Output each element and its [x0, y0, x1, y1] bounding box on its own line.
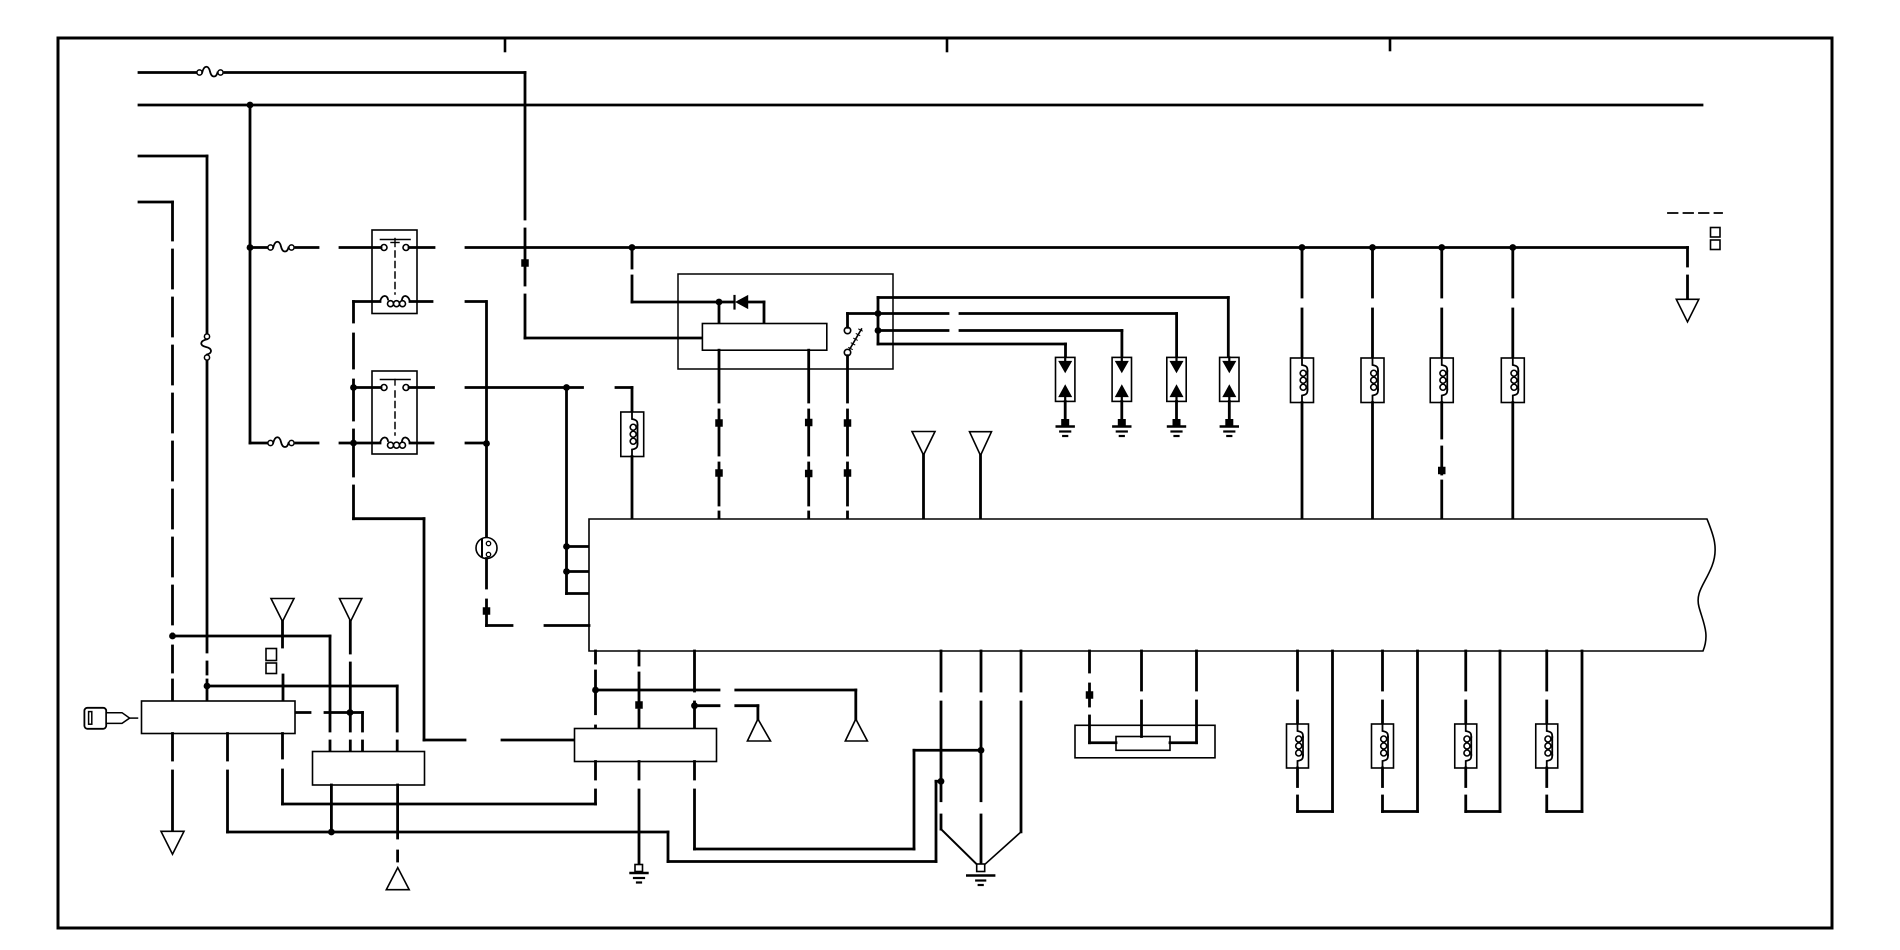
relay R2 contact tick	[394, 380, 396, 386]
wire tick top border 1	[504, 38, 507, 51]
wire x330 down	[329, 636, 332, 731]
wire fuse F3 row	[250, 442, 268, 445]
junction x486 coil R2 return	[483, 440, 490, 447]
wire coil M1 return to ECU	[1331, 651, 1334, 812]
coil M3	[1466, 724, 1472, 737]
arrow terminal T6 up	[386, 868, 409, 890]
arrow terminal T5	[161, 831, 184, 854]
wire ECU pin 1089	[1088, 651, 1091, 672]
junction relay R2 contact left	[350, 384, 357, 391]
solenoid L1 box	[621, 412, 644, 457]
wire diagonal pin1021 to ground point	[983, 832, 1021, 866]
wire H5 to arrow T3	[695, 704, 720, 707]
wire battery feed with fuse F1	[139, 71, 197, 74]
wire feed D	[139, 201, 173, 204]
coil M4 box	[1536, 724, 1558, 768]
ground G1	[1057, 425, 1074, 427]
wire relay R2 contact right	[409, 386, 434, 389]
wire box3 pin 639 to ground	[638, 762, 641, 780]
wire arrow B to ECU	[979, 456, 982, 520]
wire vertical x632 from hot bus	[631, 248, 634, 269]
wire h3 stub from meter	[295, 711, 310, 714]
indicator bulb	[476, 538, 497, 559]
wire ECU pin 1196	[1195, 651, 1198, 690]
wire tick top border 3	[1389, 38, 1392, 50]
wire ECU pin to coil M1	[1296, 651, 1299, 690]
junction hot bus x632	[629, 244, 636, 251]
junction rail x1372	[1369, 244, 1376, 251]
fusible link on x207	[204, 334, 209, 339]
diode pair Z4 box	[1220, 357, 1239, 401]
coil M1 box	[1287, 724, 1309, 768]
coil M3 box	[1455, 724, 1477, 768]
connector pair square 2	[266, 663, 277, 674]
resistor R	[1116, 737, 1170, 751]
injector L5 box	[1501, 358, 1524, 403]
diode pair Z4 bottom diode	[1223, 386, 1235, 397]
coil M1	[1298, 724, 1304, 737]
main relay coil block box	[702, 324, 826, 351]
arrow terminal A above ECU	[912, 432, 935, 456]
wire T1 stem lower	[282, 675, 285, 701]
wire output line 3	[878, 329, 948, 332]
wire switch to bus	[846, 314, 849, 328]
connector on switch pin 1	[844, 419, 852, 427]
wire meter pin 172 down	[171, 734, 174, 761]
main relay switch terminal bottom	[844, 349, 850, 355]
junction lineB x331	[328, 829, 335, 836]
wire relay R1 contact left	[340, 246, 381, 249]
junction pin694 h5	[691, 702, 698, 709]
junction rail x1512	[1509, 244, 1516, 251]
arrow terminal T3	[747, 719, 770, 741]
wire diagonal pin941 to ground point	[941, 829, 979, 866]
wire coil M3 down	[1464, 768, 1467, 787]
connector ground Z2	[1118, 419, 1126, 427]
diode pair Z2 top diode	[1121, 357, 1123, 361]
diode pair Z1 box	[1056, 357, 1075, 401]
wire diode Z4 to ground	[1228, 401, 1231, 420]
wire coil M3 return to ECU	[1499, 651, 1502, 812]
wire relay R1 coil left	[354, 300, 381, 303]
wire ECU pin 1141	[1140, 651, 1143, 690]
ground G5	[631, 872, 648, 874]
wire box2 pin 397 down	[396, 785, 399, 838]
junction rail x1441	[1438, 244, 1445, 251]
diode pair Z3 box	[1167, 357, 1186, 401]
coil M2 box	[1372, 724, 1394, 768]
wire drop to diode box 4	[1227, 298, 1230, 358]
junction ECU feed branch	[563, 384, 570, 391]
ECU main box	[589, 519, 1715, 651]
wire pin694 run right	[695, 848, 915, 851]
wire coil M3 loop bottom	[1466, 810, 1500, 813]
wire diode to corner	[748, 301, 765, 304]
wire x397 down	[396, 686, 399, 731]
wire down to relay coil block 2	[718, 302, 721, 324]
wire line B down	[667, 832, 670, 862]
wire switch pin to ECU	[846, 356, 849, 402]
wire rail end drop	[1686, 248, 1689, 267]
diode D1	[737, 296, 748, 308]
diode pair Z4 top diode	[1228, 357, 1230, 361]
combination meter box	[142, 701, 296, 734]
wire solenoid L1 to ECU	[631, 457, 634, 520]
main relay unit box	[678, 274, 893, 369]
junction fuse F2 branch	[247, 244, 254, 251]
wire coil M1 loop bottom	[1298, 810, 1333, 813]
wire vertical x250	[249, 105, 252, 443]
wire ECU pin from coil block B	[807, 350, 810, 402]
wire coil M4 return to ECU	[1581, 651, 1584, 812]
ignition key	[84, 708, 106, 729]
wire main hot rail	[466, 246, 1688, 249]
wire vertical x486 bulb feed	[485, 302, 488, 538]
injector L3 box	[1361, 358, 1384, 403]
connector ground Z1	[1061, 419, 1069, 427]
wire arrow A to ECU	[922, 455, 925, 519]
injector L3 coil	[1373, 358, 1379, 371]
wire injector 4 feed	[1511, 248, 1514, 298]
wire drop to diode box 1	[1064, 344, 1067, 357]
wire diode row	[632, 301, 733, 304]
wire x424 to ign box	[424, 739, 465, 742]
wire ECU pin from coil block A	[718, 350, 721, 402]
wire coil M4 loop bottom	[1547, 810, 1582, 813]
connector ground Z4	[1225, 419, 1233, 427]
injector L4 box	[1430, 358, 1453, 403]
wire h1	[173, 635, 331, 638]
wire vertical x632 to solenoid	[631, 388, 634, 413]
relay R2 contact terminal left	[381, 385, 387, 391]
connector square bottom	[1711, 240, 1721, 250]
wire coil M2 return to ECU	[1416, 651, 1419, 812]
wire line B lower run	[668, 860, 936, 863]
injector L5 coil	[1513, 358, 1519, 371]
wire ECU stub 3	[567, 592, 590, 595]
relay R2 contact bar	[381, 379, 411, 381]
wire ECU pin 1021	[1020, 651, 1023, 691]
ground G6 main	[967, 874, 994, 876]
main relay switch blade	[850, 329, 862, 350]
wire ECU pin to coil M2	[1381, 651, 1384, 690]
junction ECU stub 1	[563, 543, 570, 550]
relay R1 contact terminal left	[381, 245, 387, 251]
wire fuse F2 row	[250, 246, 268, 249]
coil M2	[1383, 724, 1389, 737]
wire vertical x566 to ECU	[565, 388, 568, 594]
arrow terminal T1	[271, 599, 294, 622]
junction x172 h1	[169, 633, 176, 640]
wire up x914	[913, 750, 916, 849]
wire diode Z2 to ground	[1120, 401, 1123, 420]
connector on pin B1	[805, 419, 813, 427]
diode pair Z1 bottom diode	[1059, 386, 1071, 397]
connector square top	[1711, 228, 1721, 238]
dashed separator	[1668, 212, 1722, 214]
connector on pin A2	[715, 469, 723, 477]
wire meter pin 282 down	[281, 734, 284, 759]
bus vertical x878	[877, 298, 880, 345]
ground G3	[1168, 425, 1185, 427]
connector ground Z3	[1173, 419, 1181, 427]
wire ECU pin 694	[693, 651, 696, 691]
wire relay R2 coil left	[340, 442, 380, 445]
wire ECU pin 639	[638, 651, 641, 665]
wire vertical x353 dashed to relay R2	[352, 302, 355, 323]
connector on pin B2	[805, 470, 813, 478]
wire resistor left lead	[1090, 741, 1117, 744]
wire coil M2 loop bottom	[1383, 810, 1418, 813]
wire vertical x207 with fusible link	[206, 156, 209, 334]
wire output line 1	[878, 296, 1228, 299]
wire x207 lower dashes	[206, 662, 209, 674]
wire injector 3 to ECU dashed	[1440, 403, 1443, 439]
solenoid L1 coil	[632, 412, 638, 425]
wire ECU stub 2	[567, 570, 590, 573]
junction diode row	[716, 299, 723, 306]
junction relay R2 coil left	[350, 440, 357, 447]
wire diode Z1 to ground	[1064, 401, 1067, 420]
wire x362 down	[361, 713, 364, 732]
ignition unit box	[575, 729, 717, 762]
relay R1 contact bar	[381, 239, 411, 241]
diode D1 cathode bar	[733, 296, 735, 309]
connector on wire x525	[521, 259, 529, 267]
junction pin981	[978, 747, 985, 754]
wire ECU pin to coil M3	[1464, 651, 1467, 690]
wire box3 pin 595 down	[594, 762, 597, 780]
coil M4	[1547, 724, 1553, 737]
connector on switch pin 2	[844, 469, 852, 477]
wire T1 stem	[281, 622, 284, 648]
key pointer	[106, 713, 129, 724]
wire injector 4 to ECU	[1511, 403, 1514, 520]
arrow terminal T4	[845, 719, 867, 741]
relay R1 contact terminal right	[403, 245, 409, 251]
wire relay R2 coil right	[410, 442, 433, 445]
wire T2 stem	[349, 621, 352, 653]
wire bulb to ECU	[487, 624, 513, 627]
wire injector 1 to ECU	[1301, 403, 1304, 520]
relay R2 box	[372, 371, 417, 454]
wire relay R2 contact left	[357, 386, 381, 389]
wire down to relay coil block	[763, 302, 766, 324]
fuse F2	[268, 245, 273, 250]
injector L4 coil	[1442, 358, 1448, 371]
wire feed C	[139, 155, 207, 158]
wire injector 2 feed	[1371, 248, 1374, 298]
wire ECU stub 1	[567, 545, 590, 548]
relay R2 coil	[380, 437, 388, 443]
ground G4	[1221, 425, 1238, 427]
diode pair Z2 box	[1112, 357, 1131, 401]
wire ECU pin to coil M4	[1545, 651, 1548, 690]
ground G2	[1113, 425, 1130, 427]
wire jog x353 to x424	[354, 517, 425, 520]
wire H4 to arrow T4	[596, 689, 720, 692]
main relay switch terminal top	[844, 327, 850, 333]
wire line B up	[935, 781, 938, 861]
wire injector 3 feed	[1440, 248, 1443, 298]
wire tick top border 2	[946, 38, 949, 51]
wire ECU pin 981	[980, 651, 983, 691]
wire output line 4	[878, 343, 1066, 346]
wire relay R1 contact right	[409, 246, 434, 249]
connector pair square 1	[266, 649, 277, 661]
relay R1 armature dashed link	[394, 251, 396, 294]
wire injector 1 feed	[1301, 248, 1304, 298]
wire ECU pin 941	[940, 651, 943, 691]
wire drop to diode box 2	[1121, 331, 1124, 358]
fuse F3	[268, 440, 273, 445]
wire hot feed bus	[139, 104, 1702, 107]
junction bus 313	[875, 310, 882, 317]
connector pin1089	[1086, 691, 1094, 699]
arrow terminal to other page	[1676, 299, 1699, 322]
wire drop to diode box 3	[1175, 314, 1178, 358]
wire stub to solenoid	[616, 386, 632, 389]
junction h3 triangle stem	[347, 709, 354, 716]
wire line B jog	[936, 780, 941, 783]
connector on pin A1	[715, 419, 723, 427]
wire output line 2	[878, 312, 948, 315]
connector below bulb	[483, 607, 491, 615]
wire ECU pin 595 to ign relay box	[594, 651, 597, 663]
resistor unit box	[1075, 725, 1215, 758]
connector pin639	[635, 701, 643, 709]
connector main ground	[977, 864, 985, 872]
fuse F1	[197, 70, 202, 75]
connector injector 3	[1438, 467, 1446, 475]
wire resistor right lead	[1170, 741, 1197, 744]
wire diode Z3 to ground	[1175, 401, 1178, 420]
injector L2 box	[1291, 358, 1314, 403]
control unit box2	[313, 752, 425, 786]
junction pin941 lower	[938, 778, 945, 785]
wire coil M2 down	[1381, 768, 1384, 787]
relay R1 contact cross	[391, 242, 399, 244]
wire line B	[228, 831, 669, 834]
arrow terminal T2	[340, 599, 362, 622]
wire injector 2 to ECU	[1371, 403, 1374, 520]
wire relay R1 coil right	[410, 300, 432, 303]
arrow terminal B above ECU	[970, 432, 992, 456]
connector ground G5	[635, 865, 643, 872]
wire vertical x172 dashed	[171, 202, 174, 636]
injector L2 coil	[1302, 358, 1308, 371]
wire coil M1 down	[1296, 768, 1299, 787]
diode pair Z3 bottom diode	[1171, 386, 1183, 397]
diode pair Z3 top diode	[1175, 357, 1177, 361]
relay R2 contact terminal right	[403, 385, 409, 391]
wire to main relay coil left	[525, 337, 702, 340]
junction rail x1302	[1299, 244, 1306, 251]
wire line A	[283, 803, 596, 806]
wire coil M4 down	[1545, 768, 1548, 787]
junction hot bus	[247, 102, 254, 109]
wire vertical x424	[423, 519, 426, 740]
diode pair Z2 bottom diode	[1116, 386, 1128, 397]
wire right to pin981	[914, 749, 981, 752]
relay R2 armature dashed link	[394, 391, 396, 435]
wire below bulb	[485, 559, 488, 589]
wire x172 to meter	[171, 646, 174, 672]
diode pair Z1 top diode	[1064, 357, 1066, 361]
junction bus 331	[875, 327, 882, 334]
wire meter pin 227 down	[226, 734, 229, 761]
wire box3 pin 694 down	[693, 762, 696, 780]
wire h2	[207, 685, 397, 688]
wire vertical from fuse F1 to main relay coil	[524, 73, 527, 220]
junction ECU stub 2	[563, 568, 570, 575]
relay R1 coil	[380, 296, 388, 302]
relay R1 box	[372, 230, 417, 314]
wire box2 pin 331 down	[330, 785, 333, 832]
junction pin595 h4	[592, 687, 599, 694]
junction x207 h2	[204, 683, 211, 690]
